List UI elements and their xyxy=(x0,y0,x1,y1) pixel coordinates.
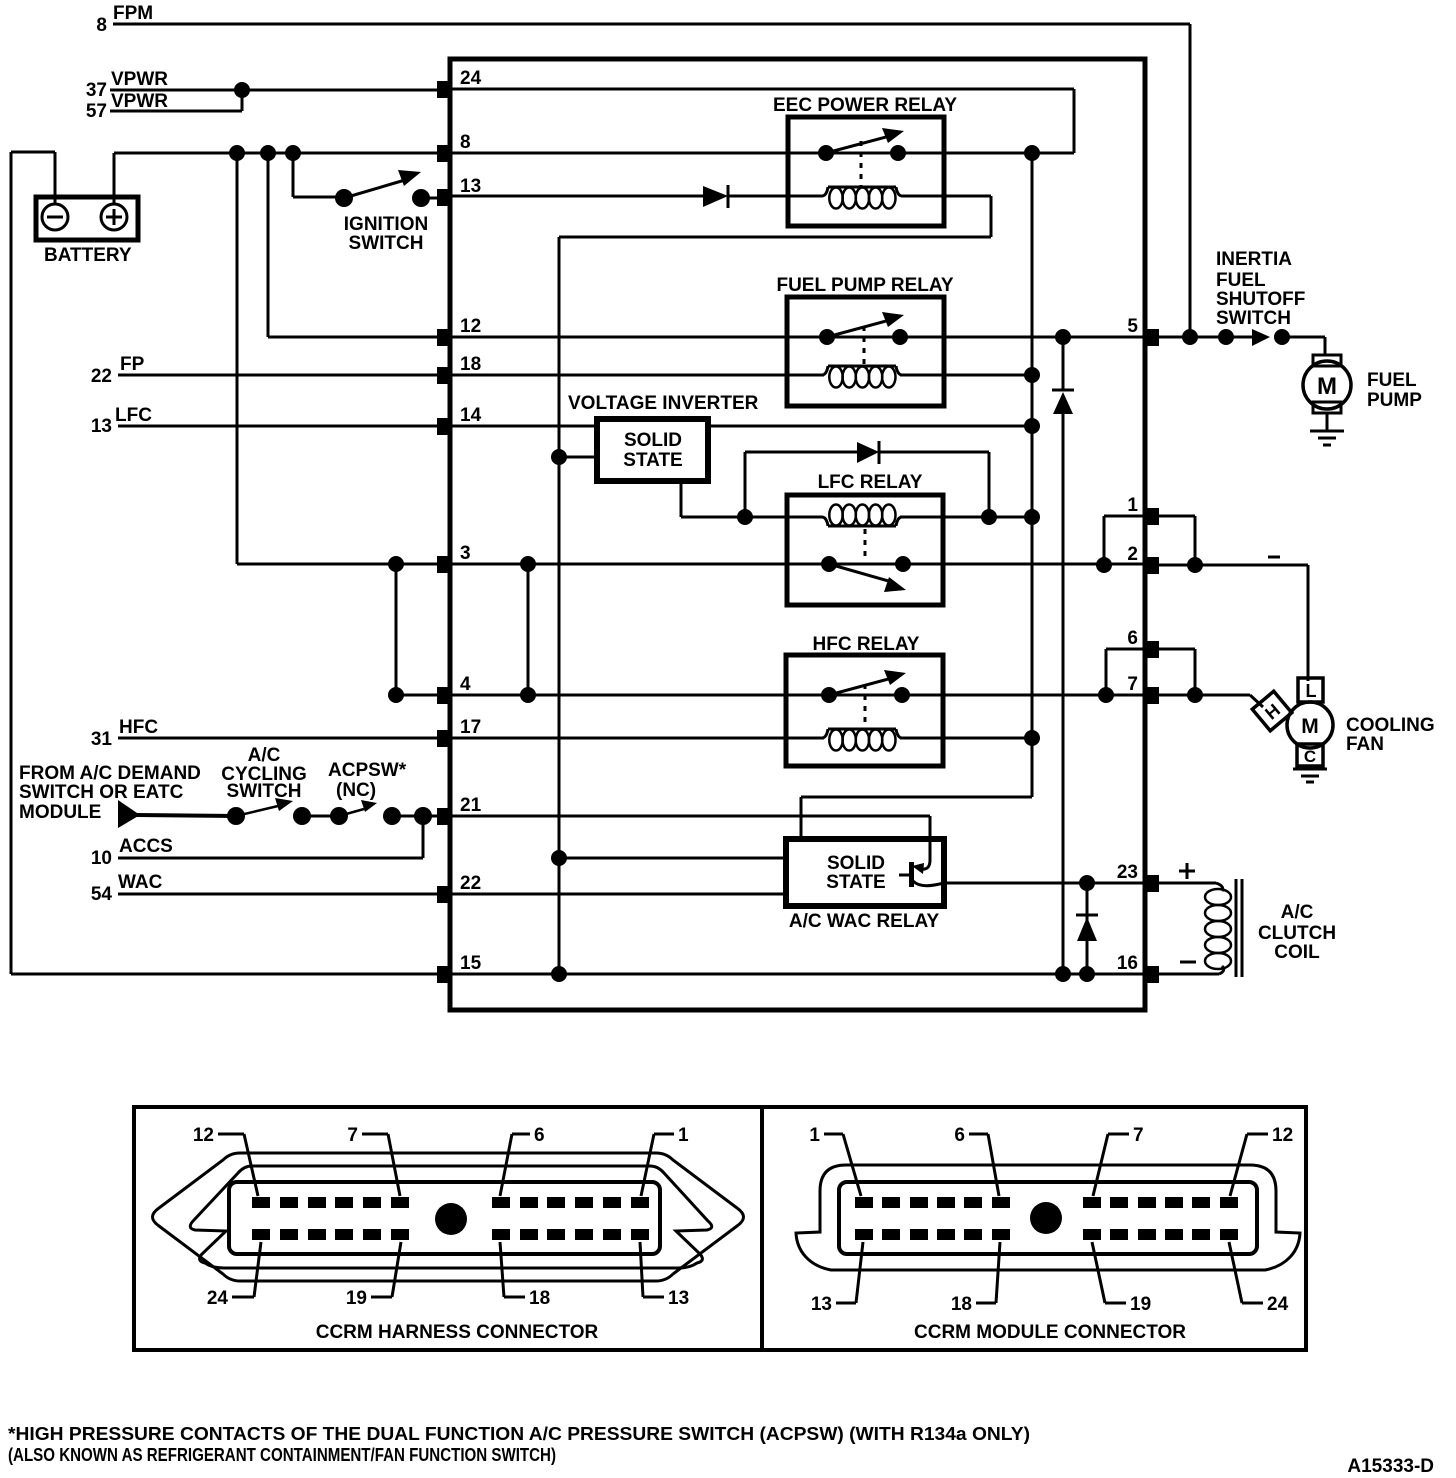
node pin3/pin4 jumper top xyxy=(388,556,404,572)
connector section outer frame xyxy=(134,1107,1306,1350)
svg-text:7: 7 xyxy=(1133,1125,1144,1146)
node pin1 jumper left xyxy=(1096,557,1112,573)
node pin3/pin4 inner jumper bottom xyxy=(520,687,536,703)
wire battery positive feed to pin 8 xyxy=(114,153,437,204)
module pin slot t7 xyxy=(1083,1197,1101,1208)
diode CR3 (pin12 to pin15) xyxy=(1052,390,1074,414)
wire pin 21 internal xyxy=(452,816,930,861)
svg-text:12: 12 xyxy=(193,1125,214,1146)
node FPM junction xyxy=(1182,329,1198,345)
node VPWR rail top xyxy=(1024,145,1040,161)
module pin slot t12 xyxy=(1220,1197,1238,1208)
harness pin slot t12 xyxy=(631,1197,649,1208)
wire cycling to ACPSW xyxy=(302,815,339,818)
svg-text:C: C xyxy=(1304,747,1316,766)
wire pin 8 internal xyxy=(452,152,1074,155)
node LFC bypass right xyxy=(981,509,997,525)
module pin slot t11 xyxy=(1192,1197,1210,1208)
pin 13 xyxy=(437,176,481,206)
wire pin 2 to cooling fan low xyxy=(1159,565,1308,681)
label HFC 31 xyxy=(91,717,158,750)
label FUEL PUMP xyxy=(1367,370,1422,411)
svg-text:19: 19 xyxy=(1130,1294,1151,1315)
diode CR1 (EEC coil feed) xyxy=(703,185,728,208)
module pin slot b4 xyxy=(937,1229,955,1240)
svg-text:COIL: COIL xyxy=(1274,942,1320,963)
wire pin 23 to clutch coil xyxy=(1159,882,1216,885)
svg-text:1: 1 xyxy=(678,1125,689,1146)
svg-text:SHUTOFF: SHUTOFF xyxy=(1216,289,1305,310)
svg-text:16: 16 xyxy=(1117,953,1138,974)
node flyback top xyxy=(1079,875,1095,891)
label VPWR 37 xyxy=(86,69,168,101)
module pin label 24 xyxy=(1229,1242,1289,1315)
wire pin 3 internal xyxy=(452,563,1145,566)
svg-text:FROM A/C DEMAND: FROM A/C DEMAND xyxy=(19,763,201,784)
module pin slot b3 xyxy=(910,1229,928,1240)
svg-text:18: 18 xyxy=(951,1294,972,1315)
label COOLING FAN xyxy=(1346,715,1435,755)
svg-text:24: 24 xyxy=(207,1288,229,1309)
svg-text:M: M xyxy=(1317,373,1337,400)
svg-text:SOLID: SOLID xyxy=(827,853,885,874)
wire pin 6 loop xyxy=(1106,649,1195,695)
svg-text:21: 21 xyxy=(460,795,482,816)
svg-text:13: 13 xyxy=(91,416,112,437)
module pin label 13 xyxy=(811,1242,863,1315)
module pin slot t3 xyxy=(910,1197,928,1208)
svg-text:5: 5 xyxy=(1127,316,1138,337)
pin 8 xyxy=(437,132,471,162)
harness pin slot t5 xyxy=(363,1197,381,1208)
node rail diode bottom xyxy=(1055,966,1071,982)
harness pin slot t2 xyxy=(280,1197,298,1208)
svg-text:10: 10 xyxy=(91,848,112,869)
harness pin slot b12 xyxy=(631,1229,649,1240)
wire pin3-pin4 jumper outside xyxy=(395,564,398,695)
svg-text:LFC: LFC xyxy=(115,405,152,426)
svg-text:VOLTAGE INVERTER: VOLTAGE INVERTER xyxy=(568,393,759,414)
CCRM module connector pin field xyxy=(839,1182,1257,1254)
wire pin 18 internal xyxy=(452,374,824,377)
pin 3 xyxy=(437,543,471,573)
svg-text:SWITCH: SWITCH xyxy=(227,781,302,802)
svg-text:22: 22 xyxy=(460,873,481,894)
label IGNITION SWITCH xyxy=(344,214,428,254)
CCRM module connector outline xyxy=(796,1165,1300,1270)
svg-text:A/C: A/C xyxy=(1281,902,1314,923)
label INERTIA FUEL SHUTOFF SWITCH xyxy=(1216,249,1305,329)
svg-text:INERTIA: INERTIA xyxy=(1216,249,1292,270)
harness pin slot t10 xyxy=(575,1197,593,1208)
svg-text:23: 23 xyxy=(1117,862,1138,883)
svg-text:7: 7 xyxy=(1127,674,1138,695)
label VPWR 57 xyxy=(86,91,168,122)
wire ACCS (pin 21) xyxy=(118,816,423,858)
node rail diode top xyxy=(1055,329,1071,345)
svg-text:37: 37 xyxy=(86,80,107,101)
module pin slot b6 xyxy=(992,1229,1010,1240)
relay U2 A/C WAC solid state xyxy=(786,839,944,906)
wire pin 17 internal xyxy=(452,737,824,740)
node LFC coil left xyxy=(737,509,753,525)
pin 23 xyxy=(1117,862,1159,892)
node inverter input xyxy=(551,449,567,465)
wire VPWR 57 xyxy=(110,90,242,111)
wire HFC coil return xyxy=(900,737,1032,740)
wire LFC coil line xyxy=(745,516,1032,519)
svg-text:SOLID: SOLID xyxy=(624,430,682,451)
wire to pin 4 xyxy=(396,694,437,697)
terminal H cooling fan xyxy=(1252,691,1291,730)
wire pin 14 internal xyxy=(452,425,1032,428)
svg-text:12: 12 xyxy=(1272,1125,1293,1146)
svg-text:FAN: FAN xyxy=(1346,734,1384,755)
node ground rail to pin 15 xyxy=(551,966,567,982)
svg-text:M: M xyxy=(1301,715,1319,738)
node pin3/pin4 inner jumper top xyxy=(520,556,536,572)
relay K3 LFC relay xyxy=(787,495,943,605)
harness pin slot b10 xyxy=(575,1229,593,1240)
node flyback bottom xyxy=(1079,966,1095,982)
svg-text:FUEL PUMP RELAY: FUEL PUMP RELAY xyxy=(776,275,953,296)
wire feed to pin 12 line xyxy=(268,153,437,337)
svg-text:WAC: WAC xyxy=(118,872,163,893)
module pin slot b11 xyxy=(1192,1229,1210,1240)
svg-text:SWITCH OR EATC: SWITCH OR EATC xyxy=(19,782,184,803)
harness pin slot b1 xyxy=(252,1229,270,1240)
svg-text:BATTERY: BATTERY xyxy=(44,245,132,266)
wire pin3-pin4 jumper inside xyxy=(527,564,530,695)
harness pin slot t6 xyxy=(391,1197,409,1208)
label plus clutch xyxy=(1179,863,1195,879)
wire pin 4 internal xyxy=(452,694,1145,697)
arrow A/C demand input xyxy=(118,800,236,828)
CCRM harness connector pin field xyxy=(229,1182,660,1254)
svg-text:COOLING: COOLING xyxy=(1346,715,1435,736)
svg-text:SWITCH: SWITCH xyxy=(349,233,424,254)
wire HFC (pin 17) xyxy=(118,737,437,740)
svg-text:8: 8 xyxy=(96,15,107,36)
pin 14 xyxy=(437,405,482,435)
wire rail diode branch xyxy=(1062,337,1065,974)
relay K1 EEC power relay xyxy=(788,117,944,226)
wire VPWR 37 xyxy=(110,89,437,92)
pin 24 xyxy=(437,68,482,98)
harness pin label 7 xyxy=(347,1125,400,1196)
pin 17 xyxy=(437,717,481,747)
label ACPSW* (NC) xyxy=(328,760,407,801)
harness pin slot b4 xyxy=(335,1229,353,1240)
battery BAT xyxy=(36,197,138,240)
svg-text:24: 24 xyxy=(1267,1294,1289,1315)
wire VPWR rail xyxy=(801,153,1032,839)
label WAC 54 xyxy=(91,872,163,905)
module pin slot t2 xyxy=(882,1197,900,1208)
harness pin slot t8 xyxy=(520,1197,538,1208)
wire pin 7 to cooling fan high xyxy=(1159,695,1263,707)
harness pin label 13 xyxy=(640,1242,689,1309)
wire LFC bypass diode loop xyxy=(745,452,989,517)
wire FP (pin 18) xyxy=(118,374,437,377)
wire feed to ignition switch xyxy=(293,153,337,197)
node pin6 jumper left xyxy=(1098,687,1114,703)
label FROM A/C DEMAND SWITCH OR EATC MODULE xyxy=(19,763,201,823)
harness pin slot t11 xyxy=(603,1197,621,1208)
harness pin label 12 xyxy=(193,1125,258,1196)
diode CR4 (clutch flyback) xyxy=(1076,915,1098,941)
svg-text:2: 2 xyxy=(1127,544,1138,565)
label ACCS 10 xyxy=(91,836,173,869)
wire pin 1 loop xyxy=(1104,516,1195,565)
wire pin 22 internal xyxy=(452,893,786,896)
svg-text:FP: FP xyxy=(120,354,145,375)
wire pin 5 external xyxy=(1159,336,1226,339)
svg-text:VPWR: VPWR xyxy=(111,69,168,90)
wire EEC coil return xyxy=(559,196,991,237)
inductor L1 A/C clutch coil xyxy=(1205,879,1242,977)
harness pin slot b11 xyxy=(603,1229,621,1240)
svg-text:1: 1 xyxy=(1127,495,1138,516)
module connector key hole xyxy=(1030,1202,1062,1234)
ground fuel pump xyxy=(1310,413,1344,445)
voltage inverter U1 solid state xyxy=(597,419,708,481)
pin 15 xyxy=(437,953,482,983)
svg-text:18: 18 xyxy=(460,354,481,375)
module pin slot b12 xyxy=(1220,1229,1238,1240)
harness pin label 18 xyxy=(500,1242,550,1309)
svg-text:FUEL: FUEL xyxy=(1216,270,1266,291)
svg-text:LFC RELAY: LFC RELAY xyxy=(818,472,923,493)
svg-text:FUEL: FUEL xyxy=(1367,370,1417,391)
terminal L cooling fan xyxy=(1298,678,1323,702)
svg-text:3: 3 xyxy=(460,543,471,564)
switch S4 inertia fuel shutoff xyxy=(1218,329,1290,346)
svg-text:6: 6 xyxy=(534,1125,545,1146)
svg-text:STATE: STATE xyxy=(826,872,885,893)
label FP 22 xyxy=(91,354,145,387)
pin 7 xyxy=(1127,674,1159,704)
pin 16 xyxy=(1117,953,1159,983)
module pin slot t8 xyxy=(1110,1197,1128,1208)
switch S3 ACPSW (NC) xyxy=(330,800,401,825)
svg-text:L: L xyxy=(1306,681,1317,701)
svg-text:IGNITION: IGNITION xyxy=(344,214,428,235)
svg-text:24: 24 xyxy=(460,68,482,89)
harness pin label 19 xyxy=(346,1242,401,1309)
svg-text:6: 6 xyxy=(954,1125,965,1146)
svg-text:22: 22 xyxy=(91,366,112,387)
svg-text:31: 31 xyxy=(91,729,113,750)
harness pin label 6 xyxy=(500,1125,545,1196)
module pin slot t5 xyxy=(964,1197,982,1208)
pin 12 xyxy=(437,316,481,346)
pin 22 xyxy=(437,873,481,903)
svg-text:18: 18 xyxy=(529,1288,550,1309)
pin 4 xyxy=(437,674,471,704)
module pin slot t1 xyxy=(855,1197,873,1208)
module pin slot b2 xyxy=(882,1229,900,1240)
module pin slot t10 xyxy=(1165,1197,1183,1208)
switch S1 ignition xyxy=(335,170,437,207)
module pin label 12 xyxy=(1230,1125,1293,1196)
wire pin 24 internal xyxy=(452,89,1074,153)
node battery feed junction B xyxy=(260,145,276,161)
node pin3/pin4 jumper bottom xyxy=(388,687,404,703)
svg-text:ACCS: ACCS xyxy=(119,836,173,857)
node HFC coil to rail xyxy=(1024,730,1040,746)
harness connector key hole xyxy=(435,1203,467,1235)
harness pin slot b5 xyxy=(363,1229,381,1240)
harness pin slot t3 xyxy=(308,1197,326,1208)
wire battery negative return xyxy=(11,152,437,974)
wire WAC trigger xyxy=(559,857,786,860)
CCRM module box xyxy=(450,59,1145,1010)
svg-text:(ALSO KNOWN AS REFRIGERANT CON: (ALSO KNOWN AS REFRIGERANT CONTAINMENT/F… xyxy=(8,1445,556,1465)
svg-text:HFC: HFC xyxy=(119,717,158,738)
svg-text:7: 7 xyxy=(347,1125,358,1146)
module pin slot b9 xyxy=(1138,1229,1156,1240)
wire pin 13 internal xyxy=(452,195,703,198)
switch S2 A/C cycling xyxy=(227,798,311,825)
svg-text:FPM: FPM xyxy=(113,3,153,24)
harness pin slot t9 xyxy=(547,1197,565,1208)
pin 2 xyxy=(1127,544,1159,574)
svg-text:13: 13 xyxy=(668,1288,689,1309)
svg-text:17: 17 xyxy=(460,717,481,738)
wire inverter input xyxy=(559,456,597,459)
diode CR2 (LFC bypass) xyxy=(857,441,879,464)
svg-text:15: 15 xyxy=(460,953,482,974)
module pin slot b10 xyxy=(1165,1229,1183,1240)
module pin label 19 xyxy=(1092,1242,1151,1315)
node VPWR junction xyxy=(234,82,250,98)
svg-text:ACPSW*: ACPSW* xyxy=(328,760,407,781)
svg-text:A/C WAC RELAY: A/C WAC RELAY xyxy=(789,911,940,932)
harness pin slot b7 xyxy=(492,1229,510,1240)
svg-text:PUMP: PUMP xyxy=(1367,390,1422,411)
label A/C CYCLING SWITCH xyxy=(221,745,307,802)
pin 6 xyxy=(1127,628,1159,658)
module pin slot b7 xyxy=(1083,1229,1101,1240)
module pin slot b8 xyxy=(1110,1229,1128,1240)
svg-text:STATE: STATE xyxy=(623,450,682,471)
harness pin slot t7 xyxy=(492,1197,510,1208)
wire internal ground rail xyxy=(558,237,561,974)
node pin1 jumper right xyxy=(1187,557,1203,573)
svg-text:4: 4 xyxy=(460,674,471,695)
node battery feed junction C xyxy=(285,145,301,161)
svg-text:MODULE: MODULE xyxy=(19,802,101,823)
wire FP coil return xyxy=(900,374,1032,377)
wire LFC (pin 14) xyxy=(118,425,437,428)
wire inverter output xyxy=(681,481,745,517)
wire ACPSW to pin 21 xyxy=(392,815,437,818)
harness pin slot t1 xyxy=(252,1197,270,1208)
module pin slot t9 xyxy=(1138,1197,1156,1208)
pin 18 xyxy=(437,354,481,384)
svg-text:13: 13 xyxy=(811,1294,832,1315)
wire flyback branch xyxy=(1086,883,1089,974)
module pin label 7 xyxy=(1093,1125,1144,1196)
motor M1 fuel pump xyxy=(1303,355,1351,413)
harness pin slot t4 xyxy=(335,1197,353,1208)
svg-text:VPWR: VPWR xyxy=(111,91,168,112)
label LFC 13 xyxy=(91,405,152,437)
node FP coil to rail xyxy=(1024,367,1040,383)
wire diode to EEC coil xyxy=(728,195,822,198)
node battery feed junction A xyxy=(229,145,245,161)
module pin slot b1 xyxy=(855,1229,873,1240)
node ACCS junction xyxy=(414,807,432,825)
CCRM harness connector outline middle xyxy=(190,1166,712,1268)
pin 5 xyxy=(1127,316,1159,346)
svg-text:14: 14 xyxy=(460,405,482,426)
svg-text:1: 1 xyxy=(809,1125,820,1146)
relay K2 fuel pump relay xyxy=(787,297,944,406)
ground cooling fan xyxy=(1293,766,1327,782)
svg-text:19: 19 xyxy=(346,1288,367,1309)
label FPM xyxy=(96,3,153,36)
svg-text:12: 12 xyxy=(460,316,481,337)
module pin slot t4 xyxy=(937,1197,955,1208)
label A/C CLUTCH COIL xyxy=(1258,902,1336,963)
svg-text:54: 54 xyxy=(91,884,113,905)
svg-text:6: 6 xyxy=(1127,628,1138,649)
harness pin slot b6 xyxy=(391,1229,409,1240)
transistor Q1 xyxy=(899,860,944,887)
module pin label 18 xyxy=(951,1242,1000,1315)
wire pin 12 internal xyxy=(452,336,1145,339)
node pin6 jumper right xyxy=(1187,687,1203,703)
svg-text:HFC RELAY: HFC RELAY xyxy=(813,634,920,655)
module pin label 6 xyxy=(954,1125,999,1196)
wire WAC (pin 22) xyxy=(118,893,437,896)
svg-text:A15333-D: A15333-D xyxy=(1347,1456,1434,1477)
harness pin label 1 xyxy=(641,1125,689,1196)
module pin label 1 xyxy=(809,1125,861,1196)
relay K4 HFC relay xyxy=(786,655,943,766)
CCRM harness connector outline outer xyxy=(153,1153,744,1281)
node LFC coil to rail xyxy=(1024,509,1040,525)
wire feed to pin 3 line xyxy=(237,153,437,564)
svg-text:CLUTCH: CLUTCH xyxy=(1258,923,1336,944)
harness pin label 24 xyxy=(207,1242,261,1309)
svg-text:*HIGH PRESSURE CONTACTS OF THE: *HIGH PRESSURE CONTACTS OF THE DUAL FUNC… xyxy=(8,1424,1030,1444)
svg-text:CCRM HARNESS CONNECTOR: CCRM HARNESS CONNECTOR xyxy=(316,1322,599,1343)
wire pin 23 internal xyxy=(944,882,1145,885)
svg-text:CCRM MODULE CONNECTOR: CCRM MODULE CONNECTOR xyxy=(914,1322,1186,1343)
harness pin slot b2 xyxy=(280,1229,298,1240)
svg-text:A/C: A/C xyxy=(248,745,281,766)
pin 1 xyxy=(1127,495,1159,525)
svg-text:EEC POWER RELAY: EEC POWER RELAY xyxy=(773,95,957,116)
harness pin slot b9 xyxy=(547,1229,565,1240)
label minus low speed xyxy=(1268,556,1280,559)
node WAC trigger from ground rail xyxy=(551,850,567,866)
terminal C cooling fan xyxy=(1297,744,1323,766)
wire inertia switch to fuel pump xyxy=(1282,337,1325,355)
node pin14 to rail xyxy=(1024,418,1040,434)
wire pin 15 internal xyxy=(452,973,1145,976)
pin 21 xyxy=(437,795,482,825)
svg-text:8: 8 xyxy=(460,132,471,153)
wire pin 16 to clutch coil xyxy=(1159,973,1219,976)
harness pin slot b3 xyxy=(308,1229,326,1240)
motor M2 cooling fan xyxy=(1287,702,1333,748)
svg-text:13: 13 xyxy=(460,176,481,197)
wire FPM (pin 8 output) xyxy=(113,24,1190,338)
